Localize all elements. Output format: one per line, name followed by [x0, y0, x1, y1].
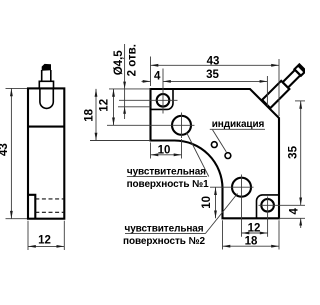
sensing circle 1	[172, 116, 191, 135]
extension top edge left	[109, 88, 151, 90]
left view connector cap (black)	[42, 64, 51, 71]
svg-text:12: 12	[98, 99, 110, 112]
svg-text:поверхность №2: поверхность №2	[123, 236, 206, 247]
svg-text:35: 35	[288, 145, 300, 158]
connector 45 deg	[262, 63, 307, 108]
centerline hole top-left horizontal	[119, 99, 178, 101]
right view body outline	[151, 89, 280, 218]
left view body	[28, 88, 64, 218]
centerline circle1 horizontal / extension for 12	[107, 124, 195, 126]
centerline circle2 horizontal / extension for 10	[210, 186, 254, 188]
svg-text:поверхность №1: поверхность №1	[127, 179, 210, 190]
dimension 4 right	[279, 217, 305, 219]
mounting hole bottom-right	[261, 199, 274, 212]
dimension 12 bottom	[242, 232, 268, 234]
LED hole 2	[225, 153, 231, 159]
dimension diameter 4,5 leader	[124, 44, 126, 119]
svg-text:Ø4,5: Ø4,5	[113, 50, 125, 76]
svg-text:10: 10	[201, 196, 213, 209]
left view dashed hidden lines	[35, 198, 64, 200]
svg-text:12: 12	[38, 235, 51, 247]
left view bottom notch	[28, 195, 35, 219]
dimension 35 right	[295, 100, 305, 102]
svg-text:18: 18	[245, 236, 258, 248]
dimension 43 (left view height)	[6, 87, 28, 89]
svg-text:12: 12	[248, 222, 261, 234]
corner pocket top-left	[151, 90, 173, 110]
centerline hole bottom-right vertical	[267, 197, 269, 237]
svg-text:индикация: индикация	[212, 119, 265, 130]
centerline hole top-left vertical	[162, 69, 164, 114]
svg-text:2 отв.: 2 отв.	[126, 44, 138, 76]
svg-text:4: 4	[154, 71, 161, 83]
sensing circle 2	[232, 178, 251, 197]
dimension 4 top	[142, 80, 151, 82]
dimension 18 left	[95, 89, 97, 141]
left view connector shaft	[42, 70, 51, 81]
svg-text:43: 43	[207, 55, 220, 67]
svg-text:10: 10	[158, 144, 171, 156]
mounting hole top-left	[157, 94, 170, 107]
centerline circle1 vertical	[181, 113, 183, 139]
dimension 12 (left view width)	[27, 221, 29, 250]
dimension 18 bottom	[222, 220, 224, 249]
svg-text:43: 43	[0, 143, 10, 156]
dimension 10 left arm	[150, 143, 152, 159]
svg-text:18: 18	[83, 108, 95, 121]
LED hole 1	[211, 142, 217, 148]
dimension 43 top	[150, 57, 152, 87]
extension hole bottom edge	[118, 106, 151, 108]
svg-text:чувствительная: чувствительная	[127, 167, 206, 178]
dimension 35 top	[266, 76, 268, 106]
dimension 10 bottom arm	[215, 187, 217, 218]
left view connector barrel inside body (U shape)	[40, 88, 53, 108]
left view seam line	[28, 126, 64, 128]
corner pocket bottom-right	[257, 195, 279, 218]
dimension 12 left	[113, 89, 115, 125]
centerline circle2 vertical / extension for 12	[241, 175, 243, 237]
extension arm bottom left	[90, 140, 151, 142]
svg-text:4: 4	[289, 208, 301, 215]
centerline hole bottom-right horizontal / extension for 35,4	[259, 204, 306, 206]
svg-text:чувствительная: чувствительная	[124, 224, 203, 235]
left view connector flange	[39, 81, 53, 88]
svg-text:35: 35	[206, 69, 219, 81]
